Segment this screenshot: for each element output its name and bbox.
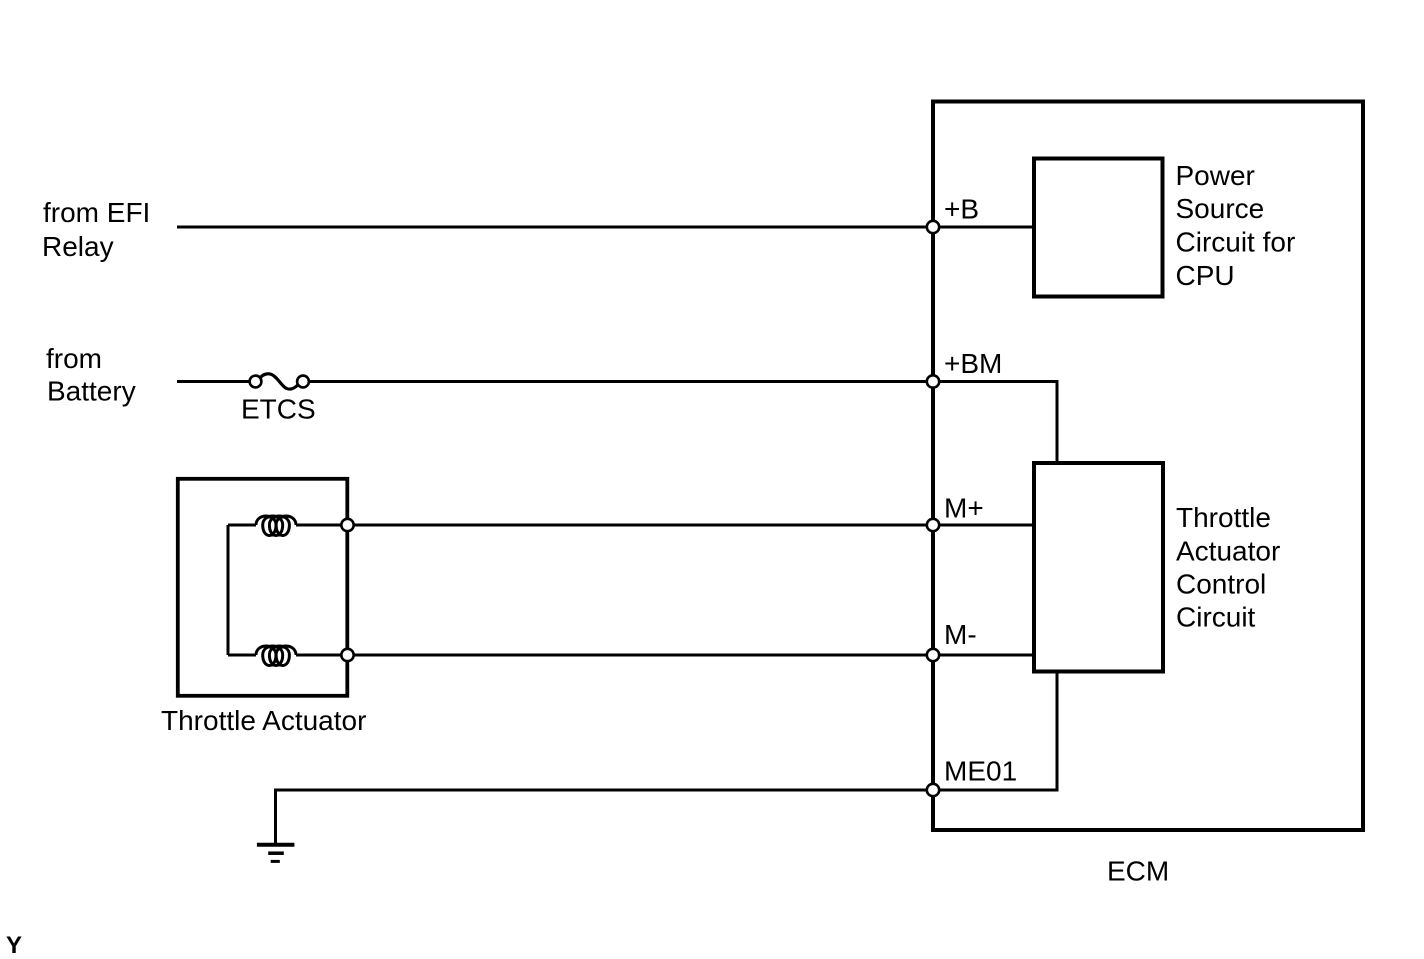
wire from Battery to fuse [177, 380, 249, 383]
Power Source Circuit for CPU box U1 [1034, 159, 1163, 297]
Throttle Actuator Control Circuit label [1176, 502, 1280, 632]
coil L2 lower motor winding [256, 646, 296, 666]
svg-text:from EFI: from EFI [43, 197, 150, 228]
wire M- from actuator to ECM [353, 654, 931, 657]
from Battery label [46, 343, 136, 407]
svg-text:Throttle Actuator: Throttle Actuator [161, 705, 366, 736]
from EFI Relay label [42, 197, 150, 262]
svg-text:Circuit for: Circuit for [1176, 227, 1296, 258]
svg-text:M-: M- [944, 619, 977, 650]
wire inner upper winding leads [228, 524, 347, 527]
terminal M+ [927, 519, 939, 531]
wire control circuit to ME01 [935, 674, 1057, 791]
svg-text:M+: M+ [944, 493, 984, 524]
wire from EFI Relay to +B terminal [177, 226, 931, 229]
terminal M- [927, 649, 939, 661]
ground [257, 845, 295, 862]
svg-text:+BM: +BM [944, 348, 1002, 379]
svg-text:Actuator: Actuator [1176, 536, 1280, 567]
svg-text:Battery: Battery [47, 376, 136, 407]
actuator terminal upper [341, 519, 353, 531]
ECM box [933, 102, 1363, 831]
svg-text:ETCS: ETCS [241, 394, 316, 425]
svg-text:Throttle: Throttle [1176, 502, 1271, 533]
wire fuse to +BM terminal [310, 380, 931, 383]
actuator terminal lower [341, 649, 353, 661]
Throttle Actuator box [178, 479, 347, 696]
wire +B terminal to Power Source Circuit [935, 226, 1032, 229]
wire M+ terminal to control circuit [935, 524, 1032, 527]
wire M- terminal to control circuit [935, 654, 1032, 657]
svg-text:Y: Y [6, 932, 22, 959]
wire M+ from actuator to ECM [353, 524, 931, 527]
Throttle Actuator Control Circuit box U2 [1034, 463, 1163, 672]
terminal ME01 [927, 784, 939, 796]
terminal +BM [927, 375, 939, 387]
svg-text:Control: Control [1176, 569, 1266, 600]
coil L1 upper motor winding [256, 516, 296, 536]
wire +BM terminal to Throttle Actuator Control Circuit [935, 382, 1057, 462]
svg-text:Power: Power [1176, 160, 1255, 191]
wire inner winding left leg [227, 525, 230, 655]
svg-text:CPU: CPU [1176, 260, 1235, 291]
svg-text:Relay: Relay [42, 231, 114, 262]
svg-text:from: from [46, 343, 102, 374]
svg-text:ME01: ME01 [944, 756, 1017, 787]
Power Source Circuit for CPU label [1176, 160, 1296, 291]
svg-text:Source: Source [1176, 193, 1265, 224]
wire ME01 to ground [276, 790, 932, 843]
svg-text:+B: +B [944, 194, 979, 225]
svg-text:ECM: ECM [1107, 856, 1169, 887]
fuse ETCS [250, 374, 309, 389]
wire inner lower winding leads [228, 654, 347, 657]
terminal +B [927, 221, 939, 233]
svg-text:Circuit: Circuit [1176, 601, 1256, 632]
